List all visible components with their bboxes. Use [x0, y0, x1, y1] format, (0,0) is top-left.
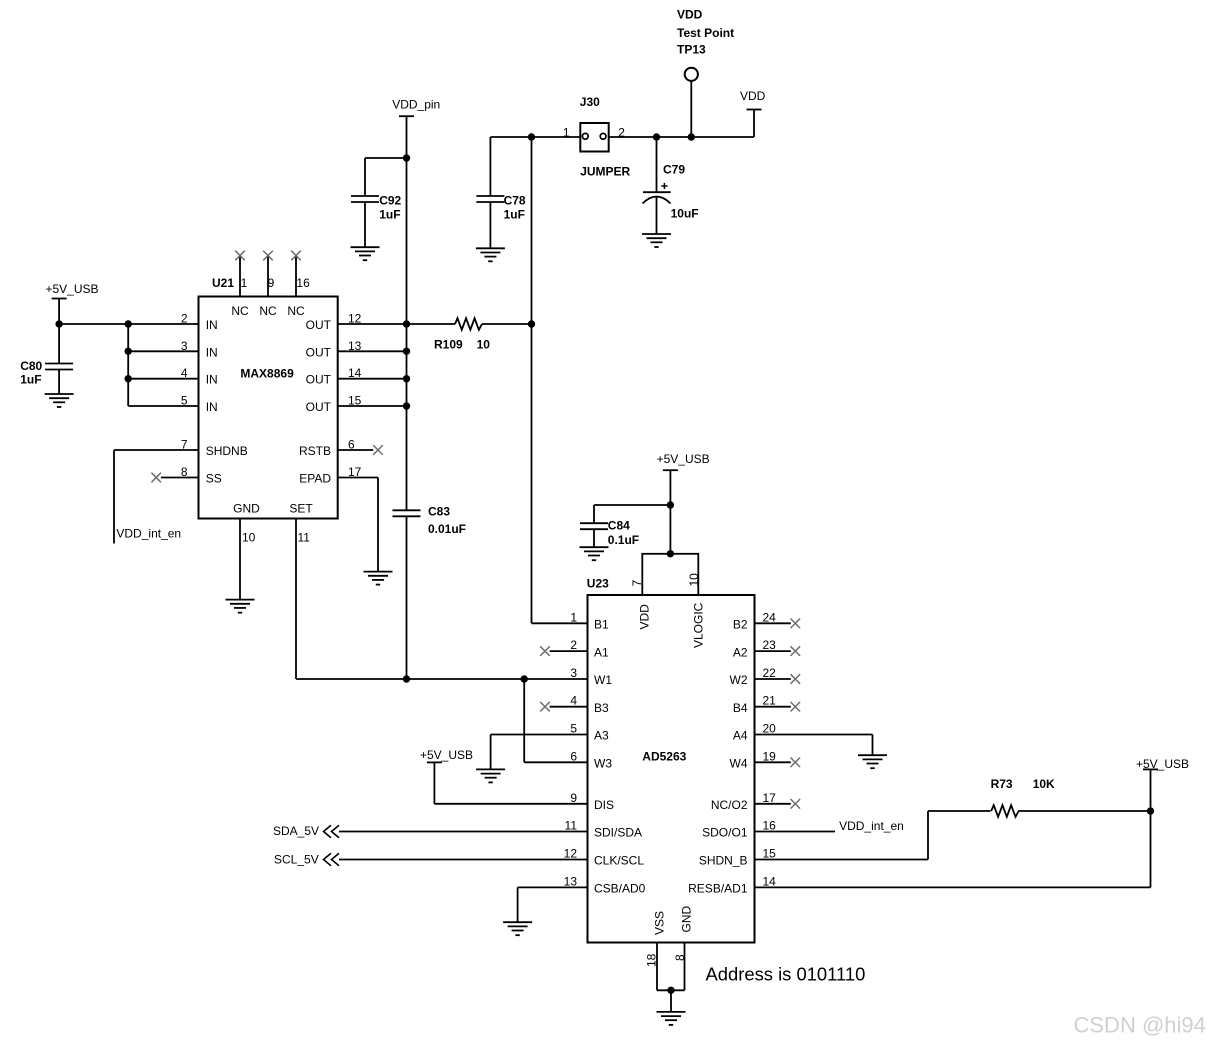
svg-text:SDO/O1: SDO/O1: [702, 826, 748, 840]
svg-text:13: 13: [564, 874, 578, 888]
svg-text:Address is 0101110: Address is 0101110: [706, 964, 866, 985]
svg-text:17: 17: [763, 791, 777, 805]
svg-text:A3: A3: [594, 729, 609, 743]
svg-text:15: 15: [348, 394, 362, 408]
svg-text:SDI/SDA: SDI/SDA: [594, 826, 642, 840]
svg-text:16: 16: [763, 819, 777, 833]
svg-text:JUMPER: JUMPER: [580, 164, 630, 178]
svg-text:8: 8: [673, 954, 687, 961]
svg-text:OUT: OUT: [306, 373, 332, 387]
svg-text:SHDNB: SHDNB: [206, 444, 248, 458]
svg-text:B4: B4: [733, 701, 748, 715]
svg-text:DIS: DIS: [594, 798, 614, 812]
svg-text:VDD_int_en: VDD_int_en: [839, 819, 904, 833]
svg-text:5: 5: [181, 394, 188, 408]
svg-text:10: 10: [477, 338, 491, 352]
svg-text:SDA_5V: SDA_5V: [273, 824, 319, 838]
svg-text:2: 2: [618, 126, 625, 140]
svg-text:2: 2: [570, 638, 577, 652]
svg-text:4: 4: [570, 694, 577, 708]
svg-text:1: 1: [563, 126, 570, 140]
svg-text:R73: R73: [991, 777, 1013, 791]
svg-text:1uF: 1uF: [379, 207, 400, 221]
svg-text:IN: IN: [206, 400, 218, 414]
svg-text:15: 15: [763, 847, 777, 861]
svg-text:8: 8: [181, 465, 188, 479]
svg-text:B3: B3: [594, 701, 609, 715]
svg-text:9: 9: [570, 791, 577, 805]
svg-text:1: 1: [241, 276, 248, 290]
svg-text:GND: GND: [680, 906, 694, 933]
svg-text:U21: U21: [212, 276, 234, 290]
svg-text:4: 4: [181, 366, 188, 380]
svg-text:VDD_pin: VDD_pin: [392, 98, 440, 112]
svg-text:14: 14: [348, 366, 362, 380]
svg-text:10uF: 10uF: [671, 207, 699, 221]
svg-text:VLOGIC: VLOGIC: [692, 602, 706, 648]
svg-text:R109: R109: [434, 338, 463, 352]
svg-text:7: 7: [630, 580, 644, 587]
svg-text:21: 21: [763, 694, 777, 708]
svg-text:0.1uF: 0.1uF: [608, 533, 639, 547]
svg-text:1: 1: [570, 610, 577, 624]
svg-text:10: 10: [687, 573, 701, 587]
svg-text:IN: IN: [206, 345, 218, 359]
svg-text:11: 11: [565, 819, 578, 833]
svg-text:VDD: VDD: [677, 8, 703, 22]
svg-text:1uF: 1uF: [20, 373, 41, 387]
svg-text:17: 17: [348, 465, 362, 479]
svg-text:C84: C84: [608, 519, 630, 533]
svg-text:7: 7: [181, 438, 188, 452]
svg-text:TP13: TP13: [677, 43, 706, 57]
svg-text:J30: J30: [580, 95, 600, 109]
svg-text:19: 19: [763, 749, 777, 763]
svg-text:C83: C83: [428, 505, 450, 519]
svg-text:23: 23: [763, 638, 777, 652]
svg-text:12: 12: [564, 847, 578, 861]
svg-text:CLK/SCL: CLK/SCL: [594, 854, 644, 868]
svg-text:3: 3: [181, 339, 188, 353]
svg-text:22: 22: [763, 666, 777, 680]
svg-text:1uF: 1uF: [504, 207, 525, 221]
svg-text:24: 24: [763, 610, 777, 624]
svg-text:6: 6: [348, 438, 355, 452]
svg-text:6: 6: [570, 749, 577, 763]
svg-text:A1: A1: [594, 645, 609, 659]
svg-text:C79: C79: [663, 163, 685, 177]
svg-text:W4: W4: [730, 757, 748, 771]
svg-text:AD5263: AD5263: [642, 750, 686, 764]
svg-text:OUT: OUT: [306, 400, 332, 414]
svg-text:14: 14: [763, 874, 777, 888]
svg-text:EPAD: EPAD: [299, 472, 331, 486]
svg-text:A4: A4: [733, 729, 748, 743]
svg-text:0.01uF: 0.01uF: [428, 522, 466, 536]
svg-text:5: 5: [570, 722, 577, 736]
svg-text:10: 10: [242, 531, 256, 545]
svg-text:11: 11: [298, 531, 311, 545]
svg-text:W1: W1: [594, 673, 612, 687]
svg-text:RSTB: RSTB: [299, 444, 331, 458]
svg-text:2: 2: [181, 312, 188, 326]
svg-text:B1: B1: [594, 618, 609, 632]
svg-text:SCL_5V: SCL_5V: [274, 853, 319, 867]
svg-text:+5V_USB: +5V_USB: [657, 452, 710, 466]
svg-text:NC: NC: [259, 304, 277, 318]
svg-text:IN: IN: [206, 318, 218, 332]
svg-text:SET: SET: [289, 502, 313, 516]
svg-text:18: 18: [645, 953, 659, 967]
svg-text:VDD_int_en: VDD_int_en: [116, 527, 181, 541]
svg-text:12: 12: [348, 312, 362, 326]
svg-text:10K: 10K: [1033, 777, 1055, 791]
svg-text:NC/O2: NC/O2: [711, 798, 748, 812]
svg-text:VDD: VDD: [638, 604, 652, 630]
svg-text:C80: C80: [20, 359, 42, 373]
svg-text:IN: IN: [206, 373, 218, 387]
svg-text:U23: U23: [587, 576, 609, 590]
svg-text:16: 16: [296, 276, 310, 290]
svg-text:3: 3: [570, 666, 577, 680]
svg-text:RESB/AD1: RESB/AD1: [688, 882, 748, 896]
svg-text:C78: C78: [504, 194, 526, 208]
svg-text:GND: GND: [233, 502, 260, 516]
svg-text:CSB/AD0: CSB/AD0: [594, 882, 646, 896]
svg-text:SS: SS: [206, 472, 222, 486]
svg-text:MAX8869: MAX8869: [240, 367, 294, 381]
svg-text:+5V_USB: +5V_USB: [420, 748, 473, 762]
svg-text:20: 20: [763, 722, 777, 736]
svg-text:VSS: VSS: [653, 911, 667, 935]
svg-text:Test Point: Test Point: [677, 26, 734, 40]
svg-text:+5V_USB: +5V_USB: [46, 282, 99, 296]
svg-text:CSDN @hi94: CSDN @hi94: [1074, 1013, 1206, 1038]
svg-text:13: 13: [348, 339, 362, 353]
svg-text:W3: W3: [594, 757, 612, 771]
svg-text:B2: B2: [733, 618, 748, 632]
svg-text:A2: A2: [733, 645, 748, 659]
svg-text:NC: NC: [287, 304, 305, 318]
svg-text:OUT: OUT: [306, 345, 332, 359]
svg-text:OUT: OUT: [306, 318, 332, 332]
svg-text:9: 9: [268, 276, 275, 290]
svg-text:SHDN_B: SHDN_B: [699, 854, 748, 868]
svg-text:W2: W2: [730, 673, 748, 687]
svg-text:VDD: VDD: [740, 89, 766, 103]
svg-text:NC: NC: [231, 304, 249, 318]
svg-text:C92: C92: [379, 194, 401, 208]
svg-text:+5V_USB: +5V_USB: [1136, 757, 1189, 771]
